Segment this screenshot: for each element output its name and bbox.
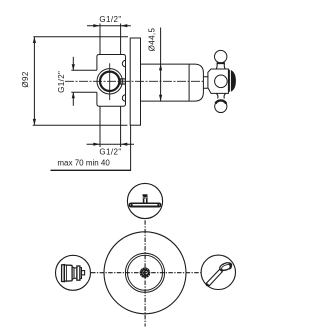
front view knob knurling dots	[141, 268, 150, 277]
icon circle spout	[56, 255, 91, 290]
bottom port G1/2 right arrow	[121, 143, 128, 146]
top port right wall	[120, 24, 122, 55]
hand shower head shade	[228, 263, 232, 270]
top port G1/2 left arrow	[93, 24, 100, 27]
body right scallop bottom	[122, 95, 125, 101]
body stem box	[120, 79, 125, 84]
hand shower head face	[221, 263, 232, 271]
icon circle hand shower	[201, 255, 235, 289]
horizontal centerline of valve	[65, 80, 204, 82]
front view knob slot	[144, 271, 147, 275]
left port top wall	[71, 69, 97, 71]
max 70 min 40 dimension line	[51, 169, 131, 171]
handle bottom waist	[216, 93, 226, 98]
wall plate	[130, 38, 140, 125]
spout nozzle	[74, 268, 77, 278]
body stem shading	[121, 80, 125, 83]
left port G1/2 arrow down	[72, 64, 75, 70]
top port G1/2 dimension line	[87, 25, 131, 27]
spout ring	[77, 266, 80, 280]
overhead shower head bar	[129, 203, 160, 207]
spout body	[64, 265, 72, 281]
hand shower handle	[206, 269, 222, 285]
handle bottom ball shade	[216, 100, 227, 103]
svg-text:G1/2": G1/2"	[57, 71, 66, 93]
left port G1/2 arrow up	[72, 92, 75, 98]
dimension Ø92 arrow down	[33, 119, 36, 125]
left port bottom wall	[71, 91, 97, 93]
vertical centerline front view	[144, 220, 146, 326]
handle top ball	[215, 50, 227, 62]
bottom port right wall	[120, 106, 122, 147]
horizontal centerline front view	[91, 272, 201, 274]
top port G1/2 right arrow	[121, 24, 128, 27]
dimension Ø92 extension line bottom	[33, 124, 128, 126]
handle hub	[208, 69, 229, 93]
bottom port left wall	[99, 106, 101, 147]
bottom port G1/2 left arrow	[93, 143, 100, 146]
wall plate extension line down	[130, 125, 132, 171]
svg-text:Ø92: Ø92	[21, 71, 30, 87]
hand shower handle cap	[206, 283, 209, 286]
spout flange	[62, 265, 65, 282]
hand shower head buttons	[222, 264, 225, 266]
front view escutcheon circle	[104, 232, 186, 314]
top port left wall	[99, 24, 101, 55]
valve cartridge outer circle	[97, 69, 122, 94]
handle bottom ball	[215, 100, 227, 112]
handle right knob dark	[228, 70, 236, 92]
left port G1/2 dimension lower	[72, 92, 74, 106]
bottom port G1/2 dimension line	[87, 143, 134, 145]
icon circle overhead shower	[127, 183, 162, 218]
svg-text:Ø44,5: Ø44,5	[148, 27, 157, 51]
handle hub circle	[215, 75, 228, 88]
trim cylinder joint line	[188, 64, 190, 101]
spout taper	[72, 267, 74, 280]
svg-text:max 70 min 40: max 70 min 40	[57, 159, 110, 168]
dimension Ø44,5 arrow up	[159, 64, 162, 70]
dimension Ø92 extension line top	[33, 36, 128, 38]
dimension Ø92 arrow up	[33, 37, 36, 43]
dimension Ø44,5 line	[160, 28, 162, 102]
left port G1/2 dimension upper	[72, 57, 74, 70]
dimension Ø44,5 arrow down	[159, 95, 162, 101]
valve cartridge inner circle	[100, 72, 119, 91]
body right scallop top	[122, 60, 125, 66]
front view trim ring outer	[125, 253, 164, 292]
valve body	[97, 55, 126, 107]
svg-text:G1/2": G1/2"	[99, 147, 121, 156]
overhead shower arm legs	[144, 198, 147, 203]
overhead shower ball joint highlight	[142, 196, 147, 198]
spout body highlight line	[65, 265, 67, 281]
svg-text:G1/2": G1/2"	[99, 15, 121, 24]
overhead shower head inner line	[131, 205, 160, 207]
front view knob center	[142, 270, 147, 275]
handle top waist junction	[217, 62, 225, 64]
handle neck	[203, 77, 208, 89]
front view trim ring inner	[128, 255, 163, 290]
overhead shower ball joint	[142, 194, 147, 198]
handle top waist	[216, 63, 225, 69]
vertical centerline of circle	[109, 63, 111, 100]
trim cylinder	[141, 64, 190, 101]
spout end cap	[80, 268, 82, 279]
trim dome	[189, 64, 203, 101]
hand shower head	[219, 261, 233, 272]
front view knob knurled	[140, 268, 151, 279]
spout outlet nub	[82, 271, 85, 275]
dimension Ø92 line	[33, 37, 35, 126]
overhead shower head end caps	[132, 203, 159, 206]
